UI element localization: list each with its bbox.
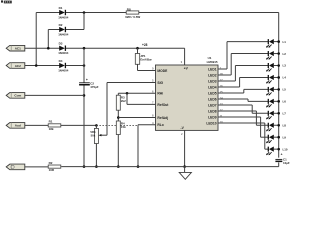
svg-text:LED6: LED6 xyxy=(208,97,217,101)
svg-text:+28: +28 xyxy=(142,43,148,47)
svg-text:D1: D1 xyxy=(59,6,63,10)
svg-text:RHi: RHi xyxy=(157,92,163,96)
svg-text:1N4004: 1N4004 xyxy=(58,16,69,20)
svg-text:L2: L2 xyxy=(283,52,287,56)
svg-text:LED4: LED4 xyxy=(208,85,217,89)
svg-text:MODE: MODE xyxy=(157,69,168,73)
svg-text:LED7: LED7 xyxy=(208,103,217,107)
svg-text:1N4004: 1N4004 xyxy=(58,33,69,37)
svg-text:2k2: 2k2 xyxy=(121,99,126,103)
svg-text:15k: 15k xyxy=(121,125,126,129)
svg-text:RLo: RLo xyxy=(157,123,163,127)
svg-text:+: + xyxy=(281,152,283,156)
svg-text:SIG: SIG xyxy=(157,81,163,85)
svg-text:R1: R1 xyxy=(49,120,53,124)
svg-text:1N4004: 1N4004 xyxy=(58,69,69,73)
svg-text:L9: L9 xyxy=(283,135,287,139)
svg-text:R2: R2 xyxy=(49,161,53,165)
svg-text:EnA/Bar: EnA/Bar xyxy=(140,58,152,62)
svg-text:LED2: LED2 xyxy=(208,73,217,77)
svg-text:02R / 0.5W: 02R / 0.5W xyxy=(125,15,140,19)
svg-text:L3: L3 xyxy=(283,64,287,68)
svg-text:50k: 50k xyxy=(91,134,96,138)
svg-text:AC1: AC1 xyxy=(15,47,21,51)
svg-text:LM3915: LM3915 xyxy=(207,60,218,64)
svg-text:+: + xyxy=(86,78,88,82)
svg-text:18k: 18k xyxy=(49,127,54,131)
svg-text:D2: D2 xyxy=(59,23,63,27)
svg-text:1N4004: 1N4004 xyxy=(58,51,69,55)
svg-text:D4: D4 xyxy=(59,59,63,63)
svg-text:LED8: LED8 xyxy=(208,109,217,113)
svg-text:LED9: LED9 xyxy=(208,115,217,119)
svg-text:L7: L7 xyxy=(283,112,287,116)
svg-text:D3: D3 xyxy=(59,42,63,46)
svg-text:LED10: LED10 xyxy=(206,121,216,125)
svg-text:L10: L10 xyxy=(283,147,288,151)
svg-text:L5: L5 xyxy=(283,88,287,92)
svg-text:AC2: AC2 xyxy=(15,64,21,68)
svg-text:470µF: 470µF xyxy=(90,85,98,89)
svg-text:L6: L6 xyxy=(283,100,287,104)
svg-text:Aud: Aud xyxy=(15,124,21,128)
svg-text:RefAdj: RefAdj xyxy=(157,116,168,120)
svg-text:10R: 10R xyxy=(49,168,55,172)
svg-text:10µF: 10µF xyxy=(283,161,290,165)
svg-text:LED1: LED1 xyxy=(208,67,217,71)
svg-text:Com: Com xyxy=(14,94,21,98)
svg-text:L4: L4 xyxy=(283,76,287,80)
svg-text:L1: L1 xyxy=(283,40,287,44)
svg-text:LED5: LED5 xyxy=(208,91,217,95)
svg-text:LED3: LED3 xyxy=(208,79,217,83)
svg-text:RefOut: RefOut xyxy=(157,103,169,107)
svg-text:L8: L8 xyxy=(283,123,287,127)
